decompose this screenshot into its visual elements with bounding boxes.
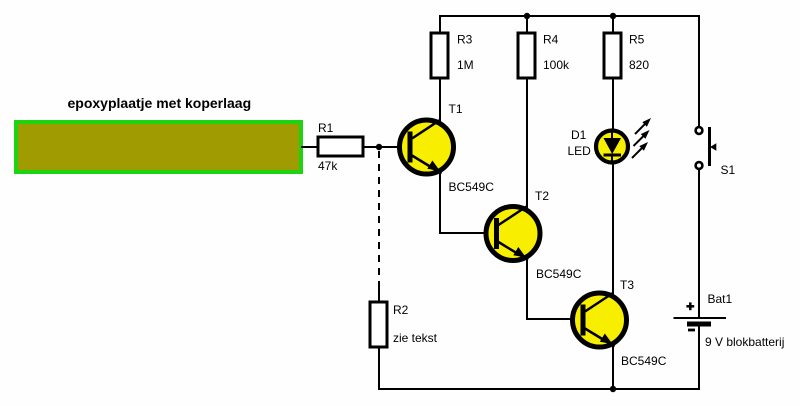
svg-text:R3: R3 <box>457 33 473 47</box>
resistor R1 <box>318 121 363 173</box>
resistor R5 <box>604 33 649 79</box>
battery Bat1 <box>674 292 785 349</box>
wire rail to R4 <box>526 16 528 33</box>
wire switch to battery <box>698 169 700 318</box>
wire board to R1 <box>301 146 318 148</box>
wire rail to switch <box>698 15 700 127</box>
svg-text:47k: 47k <box>318 159 338 173</box>
svg-text:R5: R5 <box>629 33 645 47</box>
wire solid to R2 top <box>378 281 380 302</box>
svg-text:R1: R1 <box>318 121 334 135</box>
svg-text:1M: 1M <box>457 58 474 72</box>
svg-text:S1: S1 <box>721 163 736 177</box>
resistor R2 <box>370 302 438 347</box>
bottom rail wire <box>378 388 700 390</box>
svg-text:BC549C: BC549C <box>449 180 495 194</box>
LED D1 <box>568 128 629 163</box>
switch S1 <box>696 127 736 177</box>
wire T1 emitter down <box>439 172 441 234</box>
wire rail to R3 <box>439 15 441 33</box>
transistor T3 <box>573 278 667 368</box>
wire R2 to bottom rail <box>378 347 380 389</box>
wire R1 to T1 base <box>363 146 408 148</box>
LED light arrow 2 <box>634 130 650 146</box>
svg-text:T1: T1 <box>449 102 463 116</box>
svg-text:9 V blokbatterij: 9 V blokbatterij <box>705 335 784 349</box>
node junction rail R5 <box>610 13 616 19</box>
node junction rail R4 <box>524 13 530 19</box>
wire LED to T3 collector <box>612 162 614 294</box>
resistor R4 <box>518 33 570 79</box>
svg-text:D1: D1 <box>571 128 587 142</box>
wire T1 emitter to T2 base <box>439 232 495 234</box>
resistor R3 <box>431 33 474 79</box>
wire rail to R5 <box>612 16 614 33</box>
svg-text:R4: R4 <box>543 33 559 47</box>
LED light arrow 1 <box>635 118 651 134</box>
copper board (epoxy plate) <box>16 122 301 172</box>
transistor T2 <box>486 189 582 281</box>
svg-text:820: 820 <box>629 58 649 72</box>
wire T2 emitter down <box>526 259 528 320</box>
node junction bottom rail <box>610 386 616 392</box>
wire dashed to R2 <box>378 151 380 281</box>
wire R4 to T2 collector <box>526 78 528 208</box>
svg-text:BC549C: BC549C <box>621 354 667 368</box>
wire T3 emitter to bottom rail <box>612 345 614 389</box>
svg-text:epoxyplaatje met koperlaag: epoxyplaatje met koperlaag <box>68 95 252 111</box>
node junction R1/R2/base <box>376 144 382 150</box>
top rail wire <box>439 15 700 17</box>
svg-text:100k: 100k <box>543 58 570 72</box>
svg-text:LED: LED <box>568 144 592 158</box>
svg-text:R2: R2 <box>393 303 409 317</box>
svg-text:T2: T2 <box>535 189 549 203</box>
transistor T1 <box>400 102 495 194</box>
svg-text:T3: T3 <box>620 278 634 292</box>
svg-text:BC549C: BC549C <box>536 267 582 281</box>
svg-text:zie tekst: zie tekst <box>393 331 438 345</box>
LED light arrow 3 <box>632 142 648 158</box>
wire R3 to T1 collector <box>439 78 441 122</box>
svg-text:Bat1: Bat1 <box>708 292 733 306</box>
wire R5 to LED <box>612 78 614 131</box>
wire battery to bottom rail <box>698 326 700 390</box>
wire T2 emitter to T3 base <box>526 318 581 320</box>
